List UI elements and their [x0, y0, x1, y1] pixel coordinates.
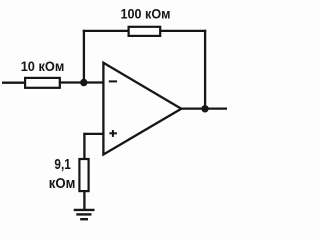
svg-text:9,1: 9,1: [54, 157, 70, 173]
wire R3 to ground: [83, 191, 85, 210]
svg-text:10 кОм: 10 кОм: [21, 59, 65, 74]
wire output: [181, 107, 227, 109]
wire R1 to summing node and op-amp inverting input: [60, 81, 103, 83]
node B output dot: [201, 105, 208, 112]
minus sign inverting input: [109, 80, 117, 82]
wire down to R3: [83, 133, 85, 159]
wire feedback top left horizontal: [83, 30, 129, 32]
wire feedback top right horizontal: [160, 30, 206, 32]
resistor R1 10 кОм: [25, 78, 60, 88]
op-amp U1 triangle: [103, 63, 181, 155]
resistor R3 9,1 кОм: [79, 159, 88, 191]
wire non-inverting input horizontal: [83, 133, 103, 135]
resistor R2 100 кОм: [129, 27, 161, 36]
wire input left segment: [2, 82, 25, 84]
svg-text:кОм: кОм: [49, 176, 76, 192]
plus sign non-inverting input: [109, 132, 117, 134]
node A summing junction dot: [80, 79, 87, 86]
wire feedback left vertical: [83, 30, 85, 83]
ground: [74, 209, 95, 211]
svg-text:100 кОм: 100 кОм: [121, 6, 171, 21]
wire feedback right vertical: [204, 30, 206, 109]
